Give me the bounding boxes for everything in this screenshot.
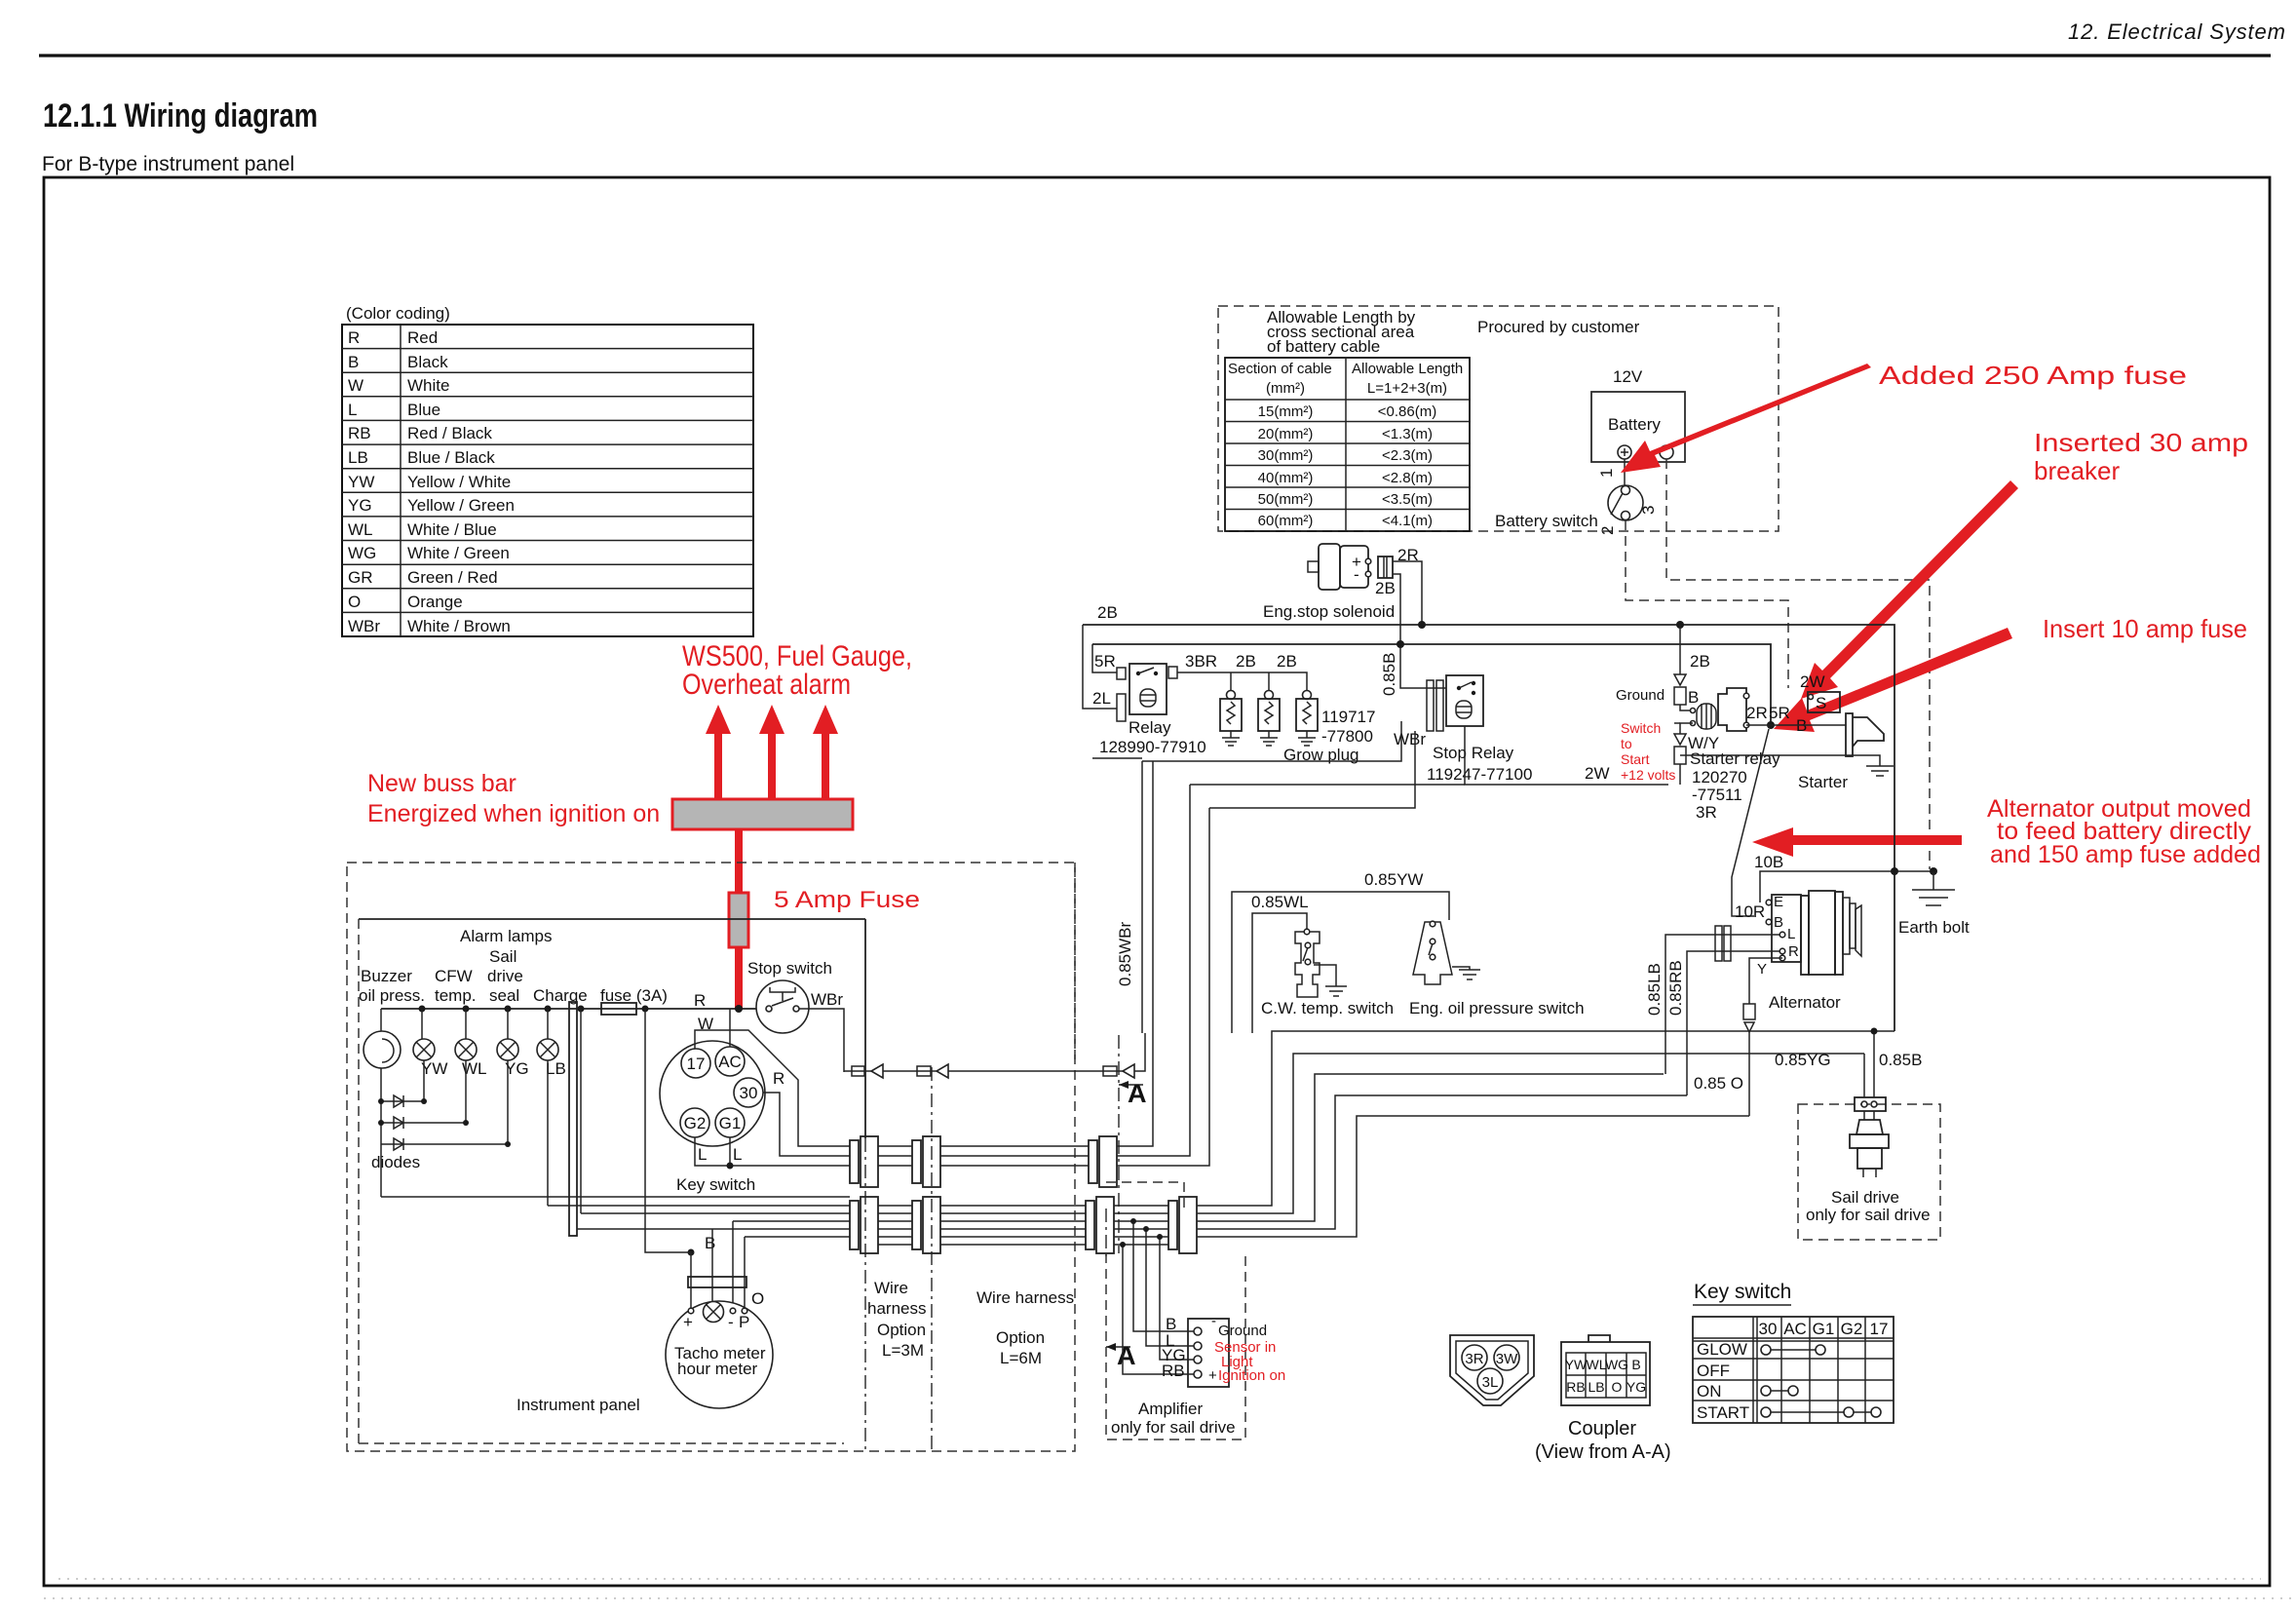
label W bus <box>698 1015 713 1033</box>
svg-text:A: A <box>1128 1079 1147 1108</box>
connector alternator leads <box>1715 926 1731 961</box>
svg-text:Orange: Orange <box>407 593 463 611</box>
label starter <box>1798 773 1848 791</box>
svg-text:hour meter: hour meter <box>677 1360 758 1378</box>
label 0.85WL <box>1251 893 1309 911</box>
wire lamp YW down <box>423 1060 425 1101</box>
label stop relay <box>1433 744 1514 762</box>
coupler 8pin connector <box>1561 1335 1650 1405</box>
page header: chapter title <box>2068 19 2285 44</box>
alarm lamp YG <box>497 1009 518 1060</box>
wire tacho P bundle <box>745 1236 850 1238</box>
label 2B solenoid <box>1375 579 1396 597</box>
svg-text:Earth bolt: Earth bolt <box>1898 918 1970 937</box>
svg-text:(View from A-A): (View from A-A) <box>1535 1441 1671 1463</box>
label LB lamp <box>546 1059 566 1078</box>
grow plug 1 <box>1220 691 1242 747</box>
upper bundle connector pair 2 <box>912 1136 940 1187</box>
svg-text:L: L <box>733 1145 742 1164</box>
lower bundle connector pair 1 <box>850 1197 878 1253</box>
red note alternator output moved <box>1987 795 2261 868</box>
label instrument panel <box>517 1396 640 1414</box>
svg-text:B: B <box>1631 1357 1640 1372</box>
svg-text:2L: 2L <box>1092 689 1111 708</box>
wire G1 L <box>729 1137 731 1166</box>
svg-text:30(mm²): 30(mm²) <box>1258 447 1314 464</box>
amplifier dashed box top <box>1106 1182 1184 1209</box>
wire relay bottom lead <box>1092 757 1142 759</box>
scan artifact dotted line above bottom border <box>58 1578 2261 1580</box>
label 0.85B sail <box>1879 1051 1922 1069</box>
label amp ignition red <box>1208 1367 1285 1384</box>
label sail <box>489 947 517 966</box>
relay 128990-77910 <box>1117 664 1177 721</box>
wire solenoid plus to bus <box>1393 561 1422 625</box>
label drive <box>487 967 523 985</box>
wire tacho minus bundle <box>733 1220 850 1222</box>
wire tacho minus <box>732 1221 734 1309</box>
new buss bar <box>672 799 853 829</box>
label fuse 3A <box>600 986 668 1005</box>
svg-text:Red: Red <box>407 328 438 347</box>
buzzer <box>364 1009 401 1068</box>
svg-text:R: R <box>773 1069 784 1088</box>
svg-text:RB: RB <box>348 424 371 442</box>
bus junction dots <box>419 1005 744 1013</box>
wire vertical from relay 3 <box>1117 785 1190 1156</box>
svg-text:40(mm²): 40(mm²) <box>1258 470 1314 486</box>
red arrow up 2 <box>759 705 784 800</box>
grow plug 2 <box>1258 691 1280 747</box>
label charge <box>533 986 588 1005</box>
svg-text:3: 3 <box>1639 506 1658 515</box>
svg-text:<1.3(m): <1.3(m) <box>1382 426 1433 442</box>
sail drive dashed box <box>1798 1104 1940 1240</box>
svg-text:only for sail drive: only for sail drive <box>1806 1206 1931 1224</box>
svg-text:R: R <box>348 328 360 347</box>
svg-text:10R: 10R <box>1735 902 1765 921</box>
svg-text:WG: WG <box>1605 1357 1628 1372</box>
instrument panel inner box <box>359 919 865 1443</box>
earth bolt ground <box>1912 871 1955 905</box>
svg-text:OFF: OFF <box>1697 1362 1730 1380</box>
svg-text:2B: 2B <box>1236 652 1256 671</box>
red arrow up 3 <box>813 705 838 800</box>
wire buzzer bundle <box>381 1196 850 1198</box>
battery minus terminal <box>1660 445 1673 459</box>
alternator diode <box>1743 1004 1755 1032</box>
label 10B <box>1754 853 1783 871</box>
lower bundle connector pair 3 <box>1086 1197 1114 1253</box>
svg-text:3W: 3W <box>1496 1351 1518 1367</box>
main bus wire <box>381 1008 769 1010</box>
wire YG to sail <box>1863 1054 1865 1097</box>
label 2R <box>1397 546 1419 564</box>
wire relay left leg <box>1083 625 1117 709</box>
svg-text:0.85WBr: 0.85WBr <box>1116 922 1134 986</box>
wire 0.85WBr vertical <box>1141 761 1143 1033</box>
svg-text:WL: WL <box>1587 1357 1607 1372</box>
svg-text:Key switch: Key switch <box>1694 1281 1791 1303</box>
svg-text:-: - <box>1354 565 1359 584</box>
wire tacho P <box>744 1237 746 1309</box>
red note insert 10 amp fuse <box>2043 614 2247 643</box>
label R bus <box>694 991 706 1010</box>
red wire buss bar to fuse <box>735 829 743 893</box>
svg-text:L: L <box>698 1145 707 1164</box>
wire WBr to stop relay <box>1142 721 1401 761</box>
svg-text:GLOW: GLOW <box>1697 1340 1747 1359</box>
red arrow to breaker <box>1801 480 2018 699</box>
wire lamp LB down <box>547 1060 549 1206</box>
svg-text:<4.1(m): <4.1(m) <box>1382 513 1433 529</box>
svg-text:20(mm²): 20(mm²) <box>1258 426 1314 442</box>
label 0.85 O <box>1694 1074 1743 1093</box>
scan artifact dotted line below bottom border <box>44 1597 2296 1599</box>
starter ground <box>1866 766 1894 776</box>
svg-text:G1: G1 <box>719 1114 742 1132</box>
breaker top symbol <box>1674 674 1686 705</box>
svg-text:128990-77910: 128990-77910 <box>1099 738 1206 756</box>
svg-text:<2.8(m): <2.8(m) <box>1382 470 1433 486</box>
svg-text:50(mm²): 50(mm²) <box>1258 491 1314 508</box>
svg-text:LB: LB <box>546 1059 566 1078</box>
wire 2B top bus <box>1083 625 1894 1031</box>
subtitle <box>42 153 294 175</box>
svg-text:L: L <box>348 401 357 419</box>
red arrow alternator output <box>1752 827 1962 857</box>
key switch circle <box>660 1041 765 1146</box>
svg-text:ON: ON <box>1697 1382 1722 1401</box>
alternator terminals E B L R Y <box>1757 894 1799 978</box>
wire charge down <box>580 1009 582 1213</box>
svg-text:+: + <box>1208 1367 1217 1384</box>
svg-text:Overheat alarm: Overheat alarm <box>682 669 851 701</box>
grow plug 3 <box>1296 691 1318 747</box>
svg-text:White: White <box>407 376 449 395</box>
svg-text:Yellow / Green: Yellow / Green <box>407 496 515 515</box>
svg-text:2R: 2R <box>1746 704 1768 722</box>
svg-text:Black: Black <box>407 353 448 371</box>
sail drive connector <box>1855 1097 1886 1111</box>
svg-text:Allowable Length: Allowable Length <box>1352 361 1463 377</box>
svg-text:5 Amp Fuse: 5 Amp Fuse <box>774 887 920 913</box>
label grow plug part <box>1321 708 1375 746</box>
wire lamp YG down <box>507 1060 509 1144</box>
junction 2B starter drop <box>1676 621 1684 629</box>
wire breaker to coil <box>1680 705 1693 710</box>
label 2B starter drop <box>1690 652 1710 671</box>
svg-text:30: 30 <box>1759 1320 1778 1338</box>
battery label 12V <box>1613 367 1643 386</box>
svg-text:0.85LB: 0.85LB <box>1645 963 1664 1016</box>
svg-text:YW: YW <box>421 1059 447 1078</box>
svg-text:Sail: Sail <box>489 947 517 966</box>
wire 10B <box>1760 871 1933 902</box>
svg-text:Stop Relay: Stop Relay <box>1433 744 1514 762</box>
junction 10B earth <box>1930 867 1937 875</box>
coupler pin 3R <box>1462 1345 1487 1370</box>
battery switch terminal 3 label <box>1639 506 1658 515</box>
label wire harness option 6M <box>976 1288 1074 1367</box>
svg-text:START: START <box>1697 1403 1749 1422</box>
wire Y to diode to O wire <box>1749 958 1782 1116</box>
label 0.85YG sail <box>1775 1051 1831 1069</box>
svg-text:15(mm²): 15(mm²) <box>1258 403 1314 420</box>
wire stop relay to starter coil 2W <box>1190 726 1668 785</box>
svg-text:12. Electrical System: 12. Electrical System <box>2068 19 2285 44</box>
svg-text:5R: 5R <box>1769 704 1790 722</box>
svg-text:Charge: Charge <box>533 986 588 1005</box>
coupler pin 3W <box>1494 1345 1519 1370</box>
stop relay <box>1427 675 1483 731</box>
svg-text:0.85YG: 0.85YG <box>1775 1051 1831 1069</box>
svg-text:30: 30 <box>740 1084 758 1102</box>
svg-text:Eng.stop solenoid: Eng.stop solenoid <box>1263 602 1395 621</box>
wire alternator R to connector <box>1687 951 1779 1095</box>
svg-text:Section of cable: Section of cable <box>1228 361 1332 377</box>
label relay <box>1129 718 1171 737</box>
svg-text:Battery switch: Battery switch <box>1495 512 1598 530</box>
label L G1 <box>733 1145 742 1164</box>
svg-text:G2: G2 <box>684 1114 707 1132</box>
svg-text:-: - <box>1211 1313 1216 1329</box>
svg-text:Insert 10 amp fuse: Insert 10 amp fuse <box>2043 614 2247 643</box>
label W/Y <box>1688 734 1719 752</box>
svg-text:seal: seal <box>489 986 519 1005</box>
wire bus to AC <box>729 1009 731 1047</box>
label earth bolt <box>1898 918 1970 937</box>
svg-text:LB: LB <box>348 448 368 467</box>
panel connector tall bar <box>569 1002 577 1236</box>
svg-text:YW: YW <box>348 473 374 491</box>
red note inserted 30 amp breaker <box>2034 428 2248 485</box>
label coupler <box>1535 1418 1671 1463</box>
svg-text:YW: YW <box>1565 1357 1588 1372</box>
svg-text:2: 2 <box>1598 526 1617 535</box>
svg-text:10B: 10B <box>1754 853 1783 871</box>
label temp <box>435 986 477 1005</box>
svg-text:diodes: diodes <box>371 1153 420 1171</box>
solenoid fuse <box>1378 557 1393 578</box>
label key switch table <box>1693 1281 1791 1305</box>
sail drive plug <box>1850 1111 1889 1177</box>
red note added 250 amp fuse <box>1879 361 2187 390</box>
alarm lamp WL <box>455 1009 477 1060</box>
svg-text:B: B <box>348 353 359 371</box>
svg-text:0.85RB: 0.85RB <box>1666 960 1685 1016</box>
label diodes <box>371 1153 420 1171</box>
lower bundle wires segment 2 <box>940 1206 1086 1245</box>
wire vertical 0.85B down <box>1117 808 1209 1166</box>
svg-text:12.1.1 Wiring diagram: 12.1.1 Wiring diagram <box>43 97 318 134</box>
wire 0.85YW <box>1232 892 1449 1033</box>
svg-text:<3.5(m): <3.5(m) <box>1382 491 1433 508</box>
starter relay coil <box>1691 704 1717 729</box>
label B tacho <box>705 1234 715 1252</box>
red arrow to 10 amp fuse point <box>1774 628 2012 732</box>
label 0.85WBr vertical <box>1116 922 1134 986</box>
svg-text:C.W. temp. switch: C.W. temp. switch <box>1261 999 1394 1017</box>
svg-text:12V: 12V <box>1613 367 1643 386</box>
svg-text:3R: 3R <box>1696 803 1717 822</box>
svg-text:LB: LB <box>1588 1379 1604 1395</box>
key switch table on contacts <box>1761 1386 1798 1396</box>
svg-text:Coupler: Coupler <box>1568 1418 1636 1439</box>
svg-text:2W: 2W <box>1800 672 1825 691</box>
battery cable table <box>1225 358 1470 531</box>
svg-text:W: W <box>348 376 364 395</box>
svg-text:Buzzer: Buzzer <box>361 967 412 985</box>
svg-text:Yellow / White: Yellow / White <box>407 473 511 491</box>
svg-text:Eng. oil pressure switch: Eng. oil pressure switch <box>1409 999 1585 1017</box>
svg-text:R: R <box>1788 943 1799 960</box>
dashed corridor WBr <box>1074 863 1076 1062</box>
svg-text:White / Green: White / Green <box>407 544 510 562</box>
svg-text:Inserted 30 amp: Inserted 30 amp <box>2034 428 2248 457</box>
svg-text:1: 1 <box>1597 469 1616 478</box>
label 0.85YW <box>1364 870 1423 889</box>
svg-text:+12 volts: +12 volts <box>1621 767 1675 783</box>
svg-text:AC: AC <box>718 1053 742 1071</box>
wire B to sail <box>1873 1031 1875 1097</box>
page header rule <box>39 54 2271 57</box>
label amp RB <box>1162 1362 1185 1380</box>
harness boundary dashdot mid <box>931 1067 933 1451</box>
svg-text:WL: WL <box>348 520 373 539</box>
battery switch label <box>1495 512 1598 530</box>
svg-text:drive: drive <box>487 967 523 985</box>
battery <box>1591 392 1685 462</box>
svg-text:temp.: temp. <box>435 986 477 1005</box>
label WL lamp <box>462 1059 487 1078</box>
key switch terminal 30 <box>734 1078 763 1107</box>
dashed route battery minus to earth bolt <box>1666 459 1930 869</box>
svg-text:Wire: Wire <box>874 1279 908 1297</box>
svg-text:-77800: -77800 <box>1321 727 1373 746</box>
battery plus terminal <box>1618 445 1631 459</box>
label 2B grow 1 <box>1236 652 1256 671</box>
svg-text:(Color coding): (Color coding) <box>346 304 450 323</box>
wire W/Y triangle <box>1674 723 1686 764</box>
svg-text:<0.86(m): <0.86(m) <box>1378 403 1436 420</box>
color coding table title <box>346 304 450 323</box>
svg-text:RB: RB <box>1566 1379 1585 1395</box>
svg-text:Alternator: Alternator <box>1769 993 1841 1012</box>
svg-text:120270: 120270 <box>1692 768 1747 787</box>
battery switch <box>1608 485 1643 520</box>
svg-text:WG: WG <box>348 544 376 562</box>
svg-text:O: O <box>348 593 361 611</box>
label amp YG <box>1162 1346 1186 1364</box>
lower bundle connector pair 4 <box>1168 1197 1197 1253</box>
svg-text:Ignition on: Ignition on <box>1218 1367 1285 1384</box>
wire grow plug branch 1 <box>1230 672 1232 691</box>
key switch table glow contacts <box>1761 1345 1825 1355</box>
label key switch <box>676 1175 755 1194</box>
red note 5 amp fuse <box>774 887 920 913</box>
svg-text:2B: 2B <box>1375 579 1396 597</box>
svg-text:WBr: WBr <box>1394 730 1426 748</box>
svg-text:Blue / Black: Blue / Black <box>407 448 495 467</box>
svg-text:Ground: Ground <box>1218 1323 1267 1339</box>
svg-text:Option: Option <box>996 1328 1045 1347</box>
svg-text:For B-type instrument panel: For B-type instrument panel <box>42 153 294 175</box>
svg-text:breaker: breaker <box>2034 456 2120 485</box>
svg-text:60(mm²): 60(mm²) <box>1258 513 1314 529</box>
label stop relay part <box>1427 765 1532 784</box>
tacho meter <box>666 1289 773 1408</box>
harness boundary dashdot left <box>864 1138 866 1451</box>
wire battery plus to switch <box>1624 459 1626 485</box>
junction 2R5R <box>1767 721 1775 729</box>
wire vertical from relay 2 <box>1117 761 1153 1146</box>
lower bundle wires segment 1 <box>878 1206 912 1245</box>
svg-text:L: L <box>1787 926 1795 942</box>
wire stop switch WBr out <box>799 1009 844 1072</box>
upper bundle wires <box>878 1146 1089 1166</box>
red note new buss bar <box>367 770 660 827</box>
svg-text:Key switch: Key switch <box>676 1175 755 1194</box>
label amplifier <box>1111 1400 1236 1437</box>
svg-text:L=6M: L=6M <box>1000 1349 1042 1367</box>
svg-text:E: E <box>1774 894 1783 910</box>
wire 30 to harness R <box>763 1093 850 1156</box>
wire WBr harness with inline connectors <box>844 1033 1145 1078</box>
label 0.85B vertical <box>1380 653 1398 696</box>
svg-text:B: B <box>705 1234 715 1252</box>
svg-text:+: + <box>683 1313 693 1331</box>
label 10R <box>1735 902 1765 921</box>
svg-text:B: B <box>1688 688 1699 707</box>
label stop switch <box>747 959 832 978</box>
svg-text:119717: 119717 <box>1321 708 1375 726</box>
wire 0.85WL <box>1252 913 1307 1033</box>
eng stop solenoid <box>1308 544 1371 590</box>
svg-text:WBr: WBr <box>348 617 380 635</box>
key switch terminal AC <box>715 1047 745 1076</box>
wire tacho lamp <box>711 1229 713 1303</box>
wire WY down to 2W <box>1679 764 1681 785</box>
stop switch <box>756 980 809 1033</box>
label grow plug <box>1283 746 1358 764</box>
label seal <box>489 986 519 1005</box>
label amp B <box>1166 1315 1176 1333</box>
svg-text:RB: RB <box>1162 1362 1185 1380</box>
label 2R5R <box>1746 704 1790 722</box>
cw temp switch <box>1295 929 1347 997</box>
svg-text:2B: 2B <box>1690 652 1710 671</box>
red arrow up 1 <box>706 705 731 800</box>
wire charge bundle <box>581 1212 850 1214</box>
label 2B grow 2 <box>1277 652 1297 671</box>
label WBr stop switch <box>811 990 843 1009</box>
junction G1 G2 <box>727 1163 734 1170</box>
label B starter <box>1796 716 1807 735</box>
label Ground starter <box>1616 687 1665 704</box>
label relay part number <box>1099 738 1206 756</box>
section line A-A <box>1106 1035 1119 1259</box>
svg-text:CFW: CFW <box>435 967 473 985</box>
label R key switch <box>773 1069 784 1088</box>
dashed route battery switch 2 to starter <box>1626 520 1788 688</box>
key switch terminal G1 <box>715 1108 745 1137</box>
label amp sensor in red <box>1214 1339 1276 1370</box>
procured by customer dashed box <box>1218 306 1779 531</box>
battery cable note <box>1267 308 1416 356</box>
label B breaker <box>1688 688 1699 707</box>
wire second loop <box>1092 644 1771 722</box>
